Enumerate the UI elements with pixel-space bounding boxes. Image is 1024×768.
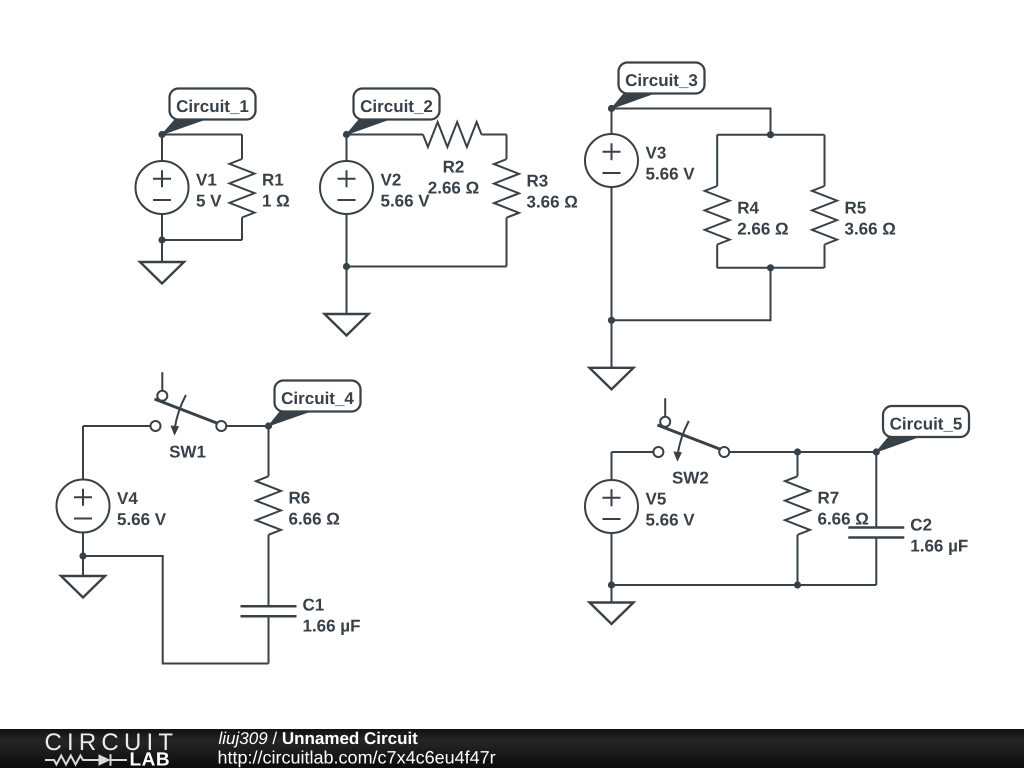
wire top rail c1 — [162, 134, 242, 136]
svg-text:R6: R6 — [289, 489, 311, 508]
node c5 r7 top — [794, 448, 801, 455]
wire V2 top stub — [346, 135, 348, 162]
svg-text:V1: V1 — [196, 171, 217, 190]
svg-text:R3: R3 — [527, 172, 549, 191]
callout Circuit_3 — [612, 93, 657, 109]
callout Circuit_1 — [162, 119, 208, 135]
svg-text:C2: C2 — [910, 516, 932, 535]
callout Circuit_2 — [347, 119, 392, 135]
callout Circuit_5 — [876, 436, 921, 452]
wire V3 bottom stub — [611, 187, 613, 320]
wire bottom rail c2 — [347, 266, 507, 268]
resistor R4 2.66 Ohm — [716, 135, 718, 186]
wire V3 top stub — [611, 109, 613, 135]
node c5 anchor — [873, 448, 880, 455]
svg-text:V3: V3 — [646, 144, 667, 163]
node c2 bottom — [343, 263, 350, 270]
node c1 bottom — [158, 236, 165, 243]
resistor R7 6.66 Ohm — [797, 452, 799, 476]
resistor R3 3.66 Ohm — [506, 135, 508, 160]
svg-text:SW1: SW1 — [169, 442, 206, 461]
wire parallel top rail — [717, 134, 824, 136]
svg-text:R1: R1 — [262, 171, 284, 190]
svg-text:LAB: LAB — [130, 750, 171, 768]
svg-text:Circuit_5: Circuit_5 — [890, 415, 963, 434]
wire V5 top lead — [611, 452, 613, 480]
svg-text:6.66 Ω: 6.66 Ω — [289, 510, 340, 529]
voltage source V4 5.66 V — [57, 480, 110, 533]
wire bottom rail c5 — [612, 584, 877, 586]
ground c4 — [82, 556, 84, 576]
svg-text:R2: R2 — [443, 158, 465, 177]
wire sw2 left lead — [612, 451, 654, 453]
ground c1 — [161, 240, 163, 262]
svg-text:V4: V4 — [117, 489, 138, 508]
wire c4 return — [83, 556, 269, 664]
svg-text:3.66 Ω: 3.66 Ω — [527, 193, 578, 212]
resistor R1 1 Ohm — [241, 135, 243, 160]
logo resistor-diode squiggle — [45, 754, 127, 765]
wire sw1 left lead — [83, 425, 151, 427]
svg-text:Circuit_4: Circuit_4 — [281, 389, 354, 408]
svg-text:1 Ω: 1 Ω — [262, 192, 290, 211]
svg-text:R5: R5 — [845, 198, 867, 217]
voltage source V1 5 V — [136, 161, 189, 214]
svg-text:1.66 µF: 1.66 µF — [303, 617, 361, 636]
wire c3 return — [612, 268, 771, 321]
node c1 top — [158, 131, 165, 138]
wire sw2 right lead — [729, 451, 876, 453]
svg-text:Circuit_2: Circuit_2 — [360, 97, 433, 116]
wire top rail c3 — [612, 109, 771, 135]
node c3 gnd — [608, 317, 615, 324]
svg-text:2.66 Ω: 2.66 Ω — [737, 219, 788, 238]
svg-text:V2: V2 — [381, 171, 402, 190]
wire top rail c2 left — [347, 134, 424, 136]
wire C1 bottom lead — [268, 616, 270, 663]
svg-text:5.66 V: 5.66 V — [646, 511, 696, 530]
callout Circuit_4 — [269, 411, 313, 427]
svg-text:5 V: 5 V — [196, 192, 222, 211]
wire top rail c2 right — [482, 134, 507, 136]
wire V1 bottom stub — [161, 214, 163, 241]
resistor R5 3.66 Ohm — [824, 135, 826, 186]
capacitor C2 1.66 uF — [875, 452, 877, 528]
wire V5 bottom stub — [611, 533, 613, 585]
wire sw1 right lead — [226, 425, 268, 427]
ground c5 — [611, 585, 613, 603]
wire V2 bottom stub — [346, 214, 348, 267]
svg-text:C1: C1 — [303, 596, 325, 615]
wire bottom rail c1 — [162, 239, 242, 241]
node c3 par top — [767, 131, 774, 138]
svg-text:http://circuitlab.com/c7x4c6eu: http://circuitlab.com/c7x4c6eu4f47r — [218, 748, 496, 768]
node c4 sw — [265, 422, 272, 429]
wire V4 top lead — [82, 426, 84, 480]
svg-text:5.66 V: 5.66 V — [117, 510, 167, 529]
voltage source V5 5.66 V — [585, 480, 638, 533]
resistor R2 2.66 Ohm — [423, 122, 482, 147]
svg-text:3.66 Ω: 3.66 Ω — [845, 219, 896, 238]
switch SW1 — [151, 372, 227, 431]
wire parallel bottom rail — [717, 267, 824, 269]
svg-text:R4: R4 — [737, 198, 759, 217]
svg-text:5.66 V: 5.66 V — [381, 192, 431, 211]
wire V1 top stub — [161, 135, 163, 162]
svg-text:V5: V5 — [646, 490, 667, 509]
svg-text:Circuit_1: Circuit_1 — [176, 97, 249, 116]
node c3 par bottom — [767, 264, 774, 271]
switch SW2 — [653, 398, 729, 457]
wire V4 bottom stub — [82, 533, 84, 557]
node c4 gnd — [79, 552, 86, 559]
resistor R6 6.66 Ohm — [268, 426, 270, 476]
node c3 anchor — [608, 105, 615, 112]
voltage source V2 5.66 V — [320, 161, 373, 214]
svg-text:SW2: SW2 — [672, 468, 709, 487]
node c2 top — [343, 131, 350, 138]
voltage source V3 5.66 V — [585, 134, 638, 187]
svg-text:Circuit_3: Circuit_3 — [625, 71, 698, 90]
svg-text:2.66 Ω: 2.66 Ω — [428, 179, 479, 198]
svg-text:liuj309 / Unnamed Circuit: liuj309 / Unnamed Circuit — [219, 729, 419, 748]
svg-text:5.66 V: 5.66 V — [646, 165, 696, 184]
svg-text:6.66 Ω: 6.66 Ω — [818, 510, 869, 529]
capacitor C1 1.66 uF — [241, 606, 297, 616]
ground c2 — [346, 267, 348, 315]
svg-text:R7: R7 — [818, 489, 840, 508]
node c5 r7 bottom — [794, 581, 801, 588]
ground c3 — [611, 320, 613, 368]
node c5 gnd — [608, 581, 615, 588]
svg-text:1.66 µF: 1.66 µF — [910, 537, 968, 556]
